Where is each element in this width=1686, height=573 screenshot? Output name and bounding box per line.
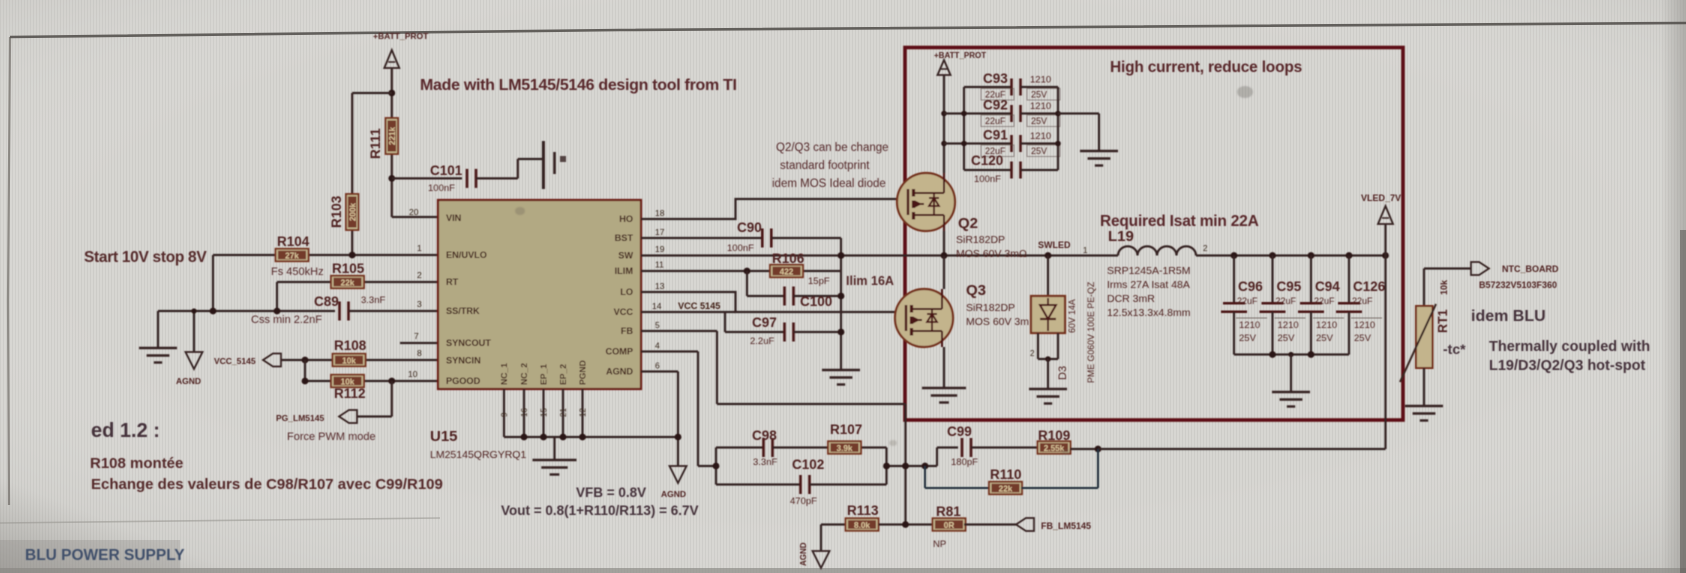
- svg-text:PGND: PGND: [578, 360, 588, 385]
- svg-text:C101: C101: [430, 163, 463, 178]
- svg-text:3.3nF: 3.3nF: [753, 457, 777, 468]
- svg-text:25V: 25V: [1031, 90, 1047, 100]
- svg-text:High current, reduce loops: High current, reduce loops: [1110, 59, 1302, 76]
- svg-text:21: 21: [559, 408, 568, 417]
- svg-text:NC_1: NC_1: [499, 363, 509, 385]
- svg-text:60V 14A: 60V 14A: [1067, 299, 1077, 333]
- svg-text:C100: C100: [800, 294, 832, 309]
- svg-text:SiR182DP: SiR182DP: [966, 302, 1015, 314]
- svg-text:C96: C96: [1238, 279, 1263, 294]
- svg-text:15: 15: [540, 408, 549, 417]
- svg-text:standard footprint: standard footprint: [780, 160, 870, 172]
- svg-text:19: 19: [655, 244, 665, 254]
- svg-text:VIN: VIN: [446, 213, 462, 223]
- svg-text:C92: C92: [983, 98, 1008, 113]
- svg-text:100nF: 100nF: [974, 174, 1001, 185]
- svg-text:1210: 1210: [1354, 320, 1375, 331]
- svg-text:BLU POWER SUPPLY: BLU POWER SUPPLY: [25, 547, 185, 564]
- svg-text:PME G060V 100E PE-QZ: PME G060V 100E PE-QZ: [1086, 281, 1096, 383]
- svg-text:C94: C94: [1315, 279, 1340, 294]
- svg-text:22uF: 22uF: [1237, 296, 1258, 306]
- svg-text:COMP: COMP: [605, 347, 633, 357]
- svg-text:1210: 1210: [1239, 320, 1260, 331]
- svg-text:25V: 25V: [1031, 146, 1047, 156]
- svg-text:FB_LM5145: FB_LM5145: [1041, 521, 1091, 531]
- svg-text:R103: R103: [329, 195, 344, 228]
- svg-text:1210: 1210: [1278, 320, 1299, 331]
- svg-text:Required Isat min 22A: Required Isat min 22A: [1100, 213, 1259, 230]
- svg-text:0R: 0R: [944, 521, 955, 530]
- svg-text:U15: U15: [430, 428, 458, 445]
- svg-text:2.55k: 2.55k: [1044, 444, 1065, 453]
- svg-text:Css min 2.2nF: Css min 2.2nF: [251, 314, 322, 326]
- svg-text:L19: L19: [1108, 228, 1134, 245]
- svg-text:-tc*: -tc*: [1443, 341, 1466, 357]
- svg-text:25V: 25V: [1239, 333, 1257, 344]
- svg-text:AGND: AGND: [799, 542, 808, 566]
- svg-text:16: 16: [520, 408, 529, 417]
- svg-text:VCC 5145: VCC 5145: [678, 301, 720, 311]
- svg-text:RT: RT: [446, 277, 459, 287]
- svg-text:R108: R108: [334, 338, 367, 353]
- svg-text:C102: C102: [792, 457, 824, 472]
- svg-text:22k: 22k: [999, 484, 1013, 493]
- svg-text:AGND: AGND: [661, 489, 686, 499]
- svg-text:R107: R107: [830, 422, 862, 437]
- svg-text:11: 11: [655, 260, 664, 270]
- svg-text:VLED_7V: VLED_7V: [1361, 193, 1401, 203]
- svg-text:3: 3: [417, 299, 422, 309]
- svg-text:RT1: RT1: [1436, 309, 1450, 333]
- svg-text:MOS 60V 3mΩ: MOS 60V 3mΩ: [956, 248, 1027, 260]
- svg-text:Fs 450kHz: Fs 450kHz: [271, 266, 324, 278]
- svg-text:25V: 25V: [1316, 333, 1334, 344]
- svg-text:10k: 10k: [342, 356, 356, 365]
- svg-text:SiR182DP: SiR182DP: [956, 234, 1005, 246]
- svg-text:10: 10: [408, 369, 418, 379]
- svg-text:R109: R109: [1038, 428, 1070, 443]
- svg-text:DCR 3mR: DCR 3mR: [1107, 293, 1155, 305]
- svg-text:1210: 1210: [1316, 320, 1337, 331]
- svg-text:1210: 1210: [1030, 101, 1051, 112]
- svg-text:R105: R105: [332, 261, 365, 276]
- svg-text:200k: 200k: [348, 202, 357, 221]
- svg-text:C126: C126: [1353, 279, 1386, 294]
- svg-text:422: 422: [780, 267, 794, 276]
- svg-text:10k: 10k: [1439, 279, 1449, 295]
- svg-text:100nF: 100nF: [727, 243, 754, 254]
- svg-text:EP_1: EP_1: [539, 364, 549, 385]
- svg-text:R112: R112: [334, 386, 366, 401]
- svg-text:1: 1: [417, 243, 422, 253]
- svg-text:1210: 1210: [1030, 75, 1051, 86]
- svg-text:NC_2: NC_2: [519, 363, 529, 385]
- svg-text:22uF: 22uF: [1314, 296, 1335, 306]
- svg-text:12.5x13.3x4.8mm: 12.5x13.3x4.8mm: [1107, 307, 1191, 319]
- svg-text:14: 14: [652, 301, 662, 311]
- svg-text:NTC_BOARD: NTC_BOARD: [1502, 264, 1559, 274]
- svg-text:C120: C120: [971, 153, 1003, 168]
- svg-text:SYNCIN: SYNCIN: [446, 356, 481, 366]
- svg-text:BST: BST: [615, 233, 634, 243]
- svg-text:3.9k: 3.9k: [837, 444, 853, 453]
- svg-text:Irms 27A Isat 48A: Irms 27A Isat 48A: [1107, 279, 1190, 291]
- svg-text:9: 9: [500, 412, 509, 417]
- svg-text:C93: C93: [983, 71, 1008, 86]
- svg-text:C91: C91: [983, 128, 1008, 143]
- svg-text:Q3: Q3: [966, 282, 986, 299]
- svg-text:180pF: 180pF: [951, 457, 978, 468]
- svg-text:C99: C99: [947, 424, 972, 439]
- svg-text:2: 2: [417, 270, 422, 280]
- svg-text:18: 18: [655, 208, 665, 218]
- svg-text:Force PWM mode: Force PWM mode: [287, 431, 376, 443]
- svg-text:VFB = 0.8V: VFB = 0.8V: [576, 485, 646, 500]
- svg-text:3.3nF: 3.3nF: [361, 295, 385, 306]
- svg-text:22uF: 22uF: [1352, 296, 1373, 306]
- svg-text:NP: NP: [933, 539, 946, 550]
- svg-text:SWLED: SWLED: [1038, 240, 1071, 250]
- svg-text:C98: C98: [752, 428, 777, 443]
- svg-text:LM25145QRGYRQ1: LM25145QRGYRQ1: [430, 449, 526, 461]
- svg-text:R111: R111: [368, 128, 383, 159]
- svg-text:Thermally coupled with: Thermally coupled with: [1489, 339, 1650, 355]
- svg-text:100nF: 100nF: [428, 183, 455, 194]
- svg-text:idem BLU: idem BLU: [1471, 308, 1546, 325]
- svg-text:B57232V5103F360: B57232V5103F360: [1479, 280, 1557, 290]
- svg-text:Ilim 16A: Ilim 16A: [846, 274, 894, 288]
- svg-text:7: 7: [414, 331, 419, 341]
- svg-text:SRP1245A-1R5M: SRP1245A-1R5M: [1107, 265, 1190, 277]
- svg-text:13: 13: [655, 281, 665, 291]
- svg-text:Echange des valeurs de C98/R10: Echange des valeurs de C98/R107 avec C99…: [91, 476, 443, 493]
- svg-text:C89: C89: [314, 294, 339, 309]
- svg-text:Vout = 0.8(1+R110/R113) = 6.7V: Vout = 0.8(1+R110/R113) = 6.7V: [501, 503, 699, 518]
- svg-text:470pF: 470pF: [790, 496, 817, 507]
- svg-text:R110: R110: [990, 467, 1022, 482]
- svg-text:Q2/Q3 can be change: Q2/Q3 can be change: [776, 142, 889, 154]
- svg-text:22k: 22k: [341, 278, 355, 287]
- svg-text:SW: SW: [618, 251, 633, 261]
- svg-text:20: 20: [409, 207, 419, 217]
- svg-text:5: 5: [655, 320, 660, 330]
- svg-text:PGOOD: PGOOD: [446, 376, 481, 386]
- svg-text:R104: R104: [277, 234, 310, 249]
- svg-text:LO: LO: [620, 287, 633, 297]
- svg-text:R81: R81: [936, 504, 961, 519]
- svg-text:R106: R106: [772, 251, 805, 266]
- svg-text:VCC: VCC: [614, 307, 634, 317]
- svg-text:2: 2: [1030, 349, 1035, 358]
- svg-text:AGND: AGND: [606, 367, 633, 377]
- svg-text:+BATT_PROT: +BATT_PROT: [373, 31, 429, 41]
- svg-text:EP_2: EP_2: [558, 364, 568, 385]
- svg-text:+BATT_PROT: +BATT_PROT: [934, 51, 986, 60]
- svg-text:27k: 27k: [285, 251, 299, 260]
- svg-text:25V: 25V: [1354, 333, 1372, 344]
- svg-text:Start 10V stop 8V: Start 10V stop 8V: [84, 249, 207, 266]
- svg-text:15pF: 15pF: [808, 276, 830, 287]
- svg-text:6: 6: [655, 361, 660, 371]
- svg-text:PG_LM5145: PG_LM5145: [276, 413, 324, 423]
- svg-text:R108 montée: R108 montée: [90, 455, 183, 472]
- svg-text:8: 8: [417, 348, 422, 358]
- svg-text:SS/TRK: SS/TRK: [446, 306, 480, 316]
- svg-text:VCC_5145: VCC_5145: [214, 356, 256, 366]
- svg-text:C97: C97: [752, 315, 777, 330]
- svg-text:12: 12: [579, 408, 588, 417]
- svg-text:Made with LM5145/5146 design t: Made with LM5145/5146 design tool from T…: [420, 77, 737, 94]
- svg-text:idem MOS Ideal diode: idem MOS Ideal diode: [772, 178, 886, 190]
- svg-text:FB: FB: [621, 326, 634, 336]
- svg-text:Q2: Q2: [958, 215, 978, 232]
- svg-text:C95: C95: [1277, 279, 1302, 294]
- svg-text:EN/UVLO: EN/UVLO: [446, 250, 487, 260]
- svg-text:25V: 25V: [1031, 116, 1047, 126]
- svg-text:8.0k: 8.0k: [854, 521, 870, 530]
- svg-text:1: 1: [1083, 246, 1088, 255]
- svg-text:17: 17: [655, 227, 665, 237]
- svg-text:C90: C90: [737, 220, 762, 235]
- svg-text:AGND: AGND: [176, 376, 201, 386]
- svg-text:2.2uF: 2.2uF: [750, 336, 774, 347]
- svg-text:22uF: 22uF: [985, 116, 1006, 126]
- svg-text:22uF: 22uF: [1276, 296, 1297, 306]
- svg-text:ILIM: ILIM: [615, 266, 634, 276]
- svg-text:ed 1.2 :: ed 1.2 :: [91, 420, 160, 442]
- svg-text:1210: 1210: [1030, 131, 1051, 142]
- svg-text:L19/D3/Q2/Q3 hot-spot: L19/D3/Q2/Q3 hot-spot: [1489, 358, 1645, 374]
- svg-text:2: 2: [1203, 244, 1208, 253]
- svg-text:R113: R113: [847, 503, 879, 518]
- svg-text:MOS 60V 3m: MOS 60V 3m: [966, 316, 1029, 328]
- svg-text:SYNCOUT: SYNCOUT: [446, 338, 491, 348]
- svg-text:221k: 221k: [388, 126, 397, 145]
- svg-text:25V: 25V: [1278, 333, 1296, 344]
- svg-text:4: 4: [655, 341, 660, 351]
- svg-text:D3: D3: [1057, 366, 1069, 380]
- svg-text:HO: HO: [619, 214, 633, 224]
